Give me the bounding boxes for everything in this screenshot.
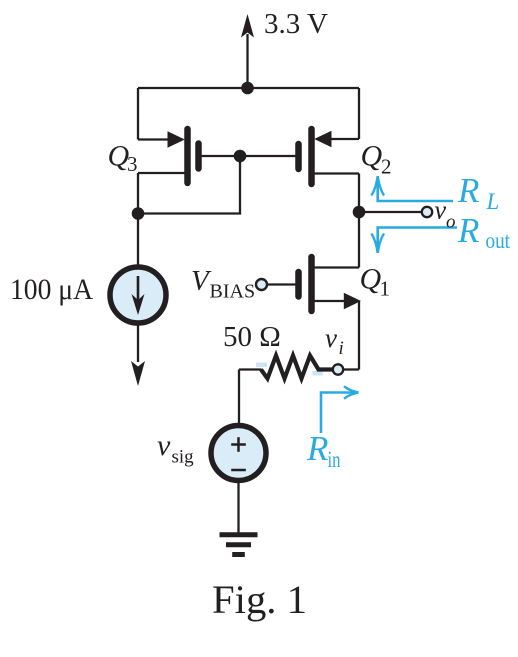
wire Q1 source down to vi node: [358, 301, 360, 370]
svg-text:R: R: [306, 429, 328, 468]
transistor Q2 channel bar: [308, 129, 315, 184]
svg-text:o: o: [446, 212, 456, 233]
3.3 V supply arrow: [241, 14, 254, 88]
terminal vi open circle: [333, 364, 343, 374]
vsig minus sign: [231, 469, 246, 472]
wire diode connection gate to drain: [138, 156, 240, 214]
svg-text:i: i: [339, 338, 344, 359]
wire vi node to terminal: [343, 368, 359, 370]
vsig plus sign: [231, 437, 246, 452]
transistor Q3 gate bar: [195, 144, 202, 169]
svg-text:1: 1: [380, 277, 391, 301]
wire VBIAS to Q1 gate: [267, 283, 296, 285]
transistor Q1 drain lead: [315, 266, 360, 268]
svg-text:Q: Q: [361, 140, 383, 173]
svg-text:out: out: [486, 228, 511, 253]
wire down to vsig: [238, 370, 240, 427]
ground symbol: [220, 535, 258, 555]
Rin arrow right: [321, 393, 355, 434]
annotation arrows (cyan): [321, 176, 457, 433]
svg-text:R: R: [457, 171, 479, 210]
wire output node down to Q1 drain: [358, 212, 360, 268]
source vsig circle: [211, 426, 266, 481]
transistor Q2 gate bar: [295, 144, 302, 169]
svg-text:Fig. 1: Fig. 1: [212, 577, 307, 622]
svg-text:BIAS: BIAS: [210, 281, 256, 303]
svg-text:2: 2: [381, 155, 392, 179]
wire Q3 drain down to current source: [137, 173, 139, 265]
RL arrow up: [378, 179, 453, 201]
current source 100uA circle: [110, 267, 166, 323]
transistor Q1 source lead with arrow: [315, 293, 362, 310]
wire top rail VDD: [138, 87, 359, 89]
transistor Q3 source lead with arrow: [138, 131, 185, 148]
svg-text:50 Ω: 50 Ω: [223, 321, 281, 353]
node: output junction dot: [353, 206, 366, 219]
wire gate line Q3 to Q2: [202, 155, 296, 157]
wire resistor left lead: [239, 368, 262, 370]
svg-text:3.3 V: 3.3 V: [264, 8, 328, 40]
wire output node to terminal: [359, 211, 422, 213]
svg-text:3: 3: [127, 152, 138, 176]
svg-text:in: in: [328, 447, 341, 472]
transistor Q3 channel bar: [184, 129, 191, 183]
wire vsig to ground: [237, 481, 239, 534]
terminal VBIAS open circle: [256, 279, 267, 290]
svg-text:Q: Q: [360, 263, 382, 296]
wire right branch down from rail: [358, 88, 360, 139]
svg-text:v: v: [435, 196, 447, 225]
node: gate junction dot: [234, 150, 247, 163]
node: Q3 drain junction dot: [132, 207, 145, 220]
current return arrow down: [131, 361, 145, 386]
wire Q2 drain down to output node: [358, 174, 360, 213]
resistor 50 ohm: [261, 356, 333, 379]
svg-text:R: R: [457, 211, 479, 250]
current source internal arrow: [132, 276, 145, 315]
svg-text:L: L: [486, 189, 500, 214]
transistor Q2 source lead with arrow: [314, 131, 359, 148]
wire below current source: [137, 323, 139, 362]
wire left branch down from rail: [137, 88, 139, 140]
terminal vo open circle: [422, 207, 432, 217]
svg-text:v: v: [325, 323, 337, 353]
svg-text:v: v: [157, 429, 171, 462]
node: VDD junction dot: [241, 82, 254, 95]
transistor Q1 channel bar: [308, 257, 315, 311]
transistor Q3 drain lead: [138, 172, 185, 174]
transistor Q2 drain lead: [315, 172, 360, 174]
svg-text:sig: sig: [172, 447, 195, 468]
transistor Q1 gate bar: [295, 272, 302, 297]
svg-text:100 μA: 100 μA: [10, 273, 93, 306]
Rout arrow down: [378, 228, 457, 251]
